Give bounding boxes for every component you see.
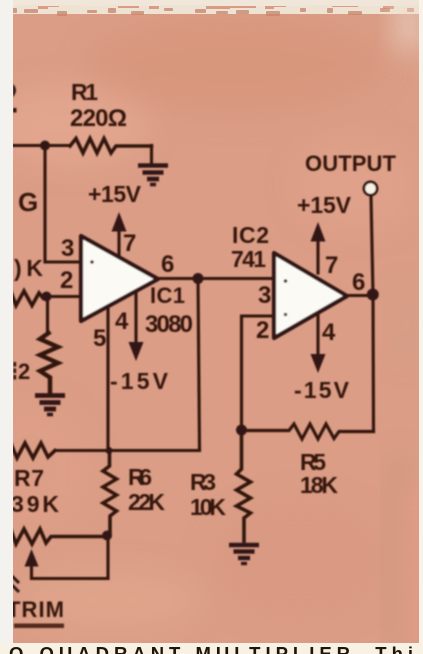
svg-text:IC1: IC1 — [150, 283, 185, 308]
left white page margin — [0, 0, 13, 654]
svg-text:3: 3 — [61, 235, 74, 262]
wire: R1 to ground G1 — [150, 146, 153, 164]
wire + resistor R5 — [245, 424, 374, 439]
IC1 pin4 shaft — [134, 290, 137, 344]
resistor R1 zigzag — [70, 139, 152, 154]
wire: top rail into R1 — [11, 144, 70, 147]
wire: IC2 output — [346, 294, 372, 297]
top cream margin with jagged scan edge — [0, 0, 423, 6]
op-amp IC2 triangle — [274, 253, 347, 338]
trimmer pot zigzag — [11, 529, 106, 544]
svg-text:22K: 22K — [128, 489, 165, 515]
svg-text:OUTPUT: OUTPUT — [305, 151, 397, 176]
svg-text:2: 2 — [18, 359, 30, 384]
svg-text:2: 2 — [60, 267, 73, 294]
ground G2 (R2) — [35, 396, 65, 415]
op-amp IC1 triangle — [81, 236, 158, 321]
wire: IC1 pin5 down — [106, 307, 109, 451]
wire: output node down to feedback rail — [198, 279, 200, 450]
IC2 pin4 shaft — [316, 312, 319, 356]
output terminal circle — [364, 182, 377, 195]
wire: node A down to IC1 pin3 — [45, 146, 80, 263]
ground G1 (R1) — [138, 166, 168, 185]
junction pot/R6 — [102, 531, 112, 541]
svg-text:R1: R1 — [71, 79, 98, 105]
wire: IC1 output to IC2 pin3 — [157, 277, 273, 280]
IC2 pin7 shaft — [316, 239, 319, 273]
resistor R6 vertical — [103, 451, 117, 535]
feedback rail y=450 — [55, 449, 200, 452]
wire: IC2 output node vertical (output jack to R5) — [371, 196, 374, 432]
wiper wire — [32, 537, 109, 579]
svg-text:3: 3 — [258, 282, 271, 309]
svg-text:10K: 10K — [190, 494, 226, 520]
svg-text:4: 4 — [115, 308, 129, 335]
svg-text:G: G — [18, 187, 38, 217]
svg-text:5: 5 — [93, 325, 106, 352]
svg-text:TRIM: TRIM — [7, 597, 64, 622]
wire: node B down + resistor R3 — [237, 430, 251, 541]
cut glyph marks left edge — [13, 84, 16, 97]
IC2 - mark — [284, 313, 288, 317]
ground G3 (R3) — [229, 545, 259, 564]
svg-text:220Ω: 220Ω — [70, 105, 127, 132]
IC1 pin7 shaft — [117, 229, 120, 256]
wire + resistor R2 vertical — [46, 297, 49, 334]
right margin shading — [393, 0, 420, 650]
junction pin2 node — [42, 292, 52, 302]
junction node B — [236, 425, 247, 436]
junction node A — [40, 141, 50, 151]
-15V arrowhead IC1 — [129, 342, 144, 361]
svg-text:R3: R3 — [190, 469, 216, 495]
resistor (cut at left edge) into pin2 node — [11, 291, 43, 306]
TRIM underline — [14, 624, 64, 629]
junction IC1 output — [193, 273, 204, 284]
trimmer wiper arrowhead — [25, 549, 39, 567]
IC2 + mark — [284, 279, 288, 283]
svg-text:R6: R6 — [128, 464, 152, 490]
svg-text:+15V: +15V — [88, 181, 142, 207]
junction IC2 output — [367, 289, 379, 301]
resistor R7 zigzag (cut at left) — [11, 443, 55, 458]
svg-text:7: 7 — [123, 230, 136, 257]
svg-text:IC2: IC2 — [232, 222, 269, 248]
-15V arrowhead IC2 — [311, 354, 326, 373]
+15V arrowhead IC2 — [311, 222, 326, 242]
bottom cream margin — [0, 643, 423, 654]
schematic ink — [11, 139, 374, 579]
svg-text:39K: 39K — [11, 491, 59, 517]
svg-text:3080: 3080 — [145, 311, 193, 338]
svg-text:6: 6 — [161, 251, 174, 278]
wire: IC2 pin2 L-path down to node B — [242, 316, 274, 428]
+15V arrowhead IC1 — [112, 212, 127, 232]
svg-text:4: 4 — [322, 319, 336, 346]
svg-text:18K: 18K — [300, 472, 338, 498]
svg-text:6: 6 — [352, 269, 365, 296]
svg-text:+15V: +15V — [297, 192, 352, 218]
svg-text:741: 741 — [231, 246, 266, 272]
IC1 + mark — [90, 260, 94, 264]
wire: pin2 node to IC1 pin2 — [43, 295, 80, 298]
svg-text:7: 7 — [325, 252, 338, 279]
junction R6 top — [106, 447, 113, 454]
svg-text:R7: R7 — [14, 465, 44, 491]
svg-text:2: 2 — [256, 317, 269, 344]
right white edge — [419, 0, 423, 654]
svg-text:)K: )K — [14, 255, 43, 281]
